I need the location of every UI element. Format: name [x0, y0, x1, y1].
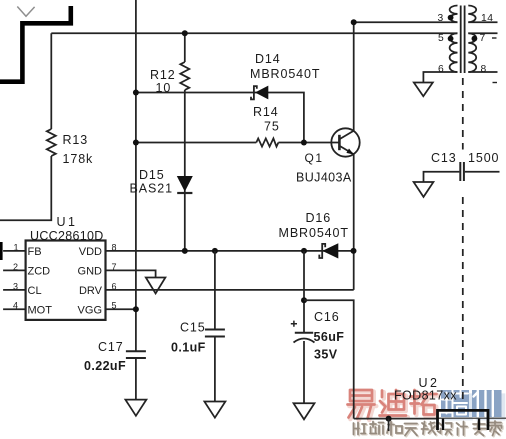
transformer winding pin5-6: [450, 33, 458, 72]
node C16 top: [301, 297, 307, 303]
svg-text:ZCD: ZCD: [28, 266, 51, 278]
diode D16 schottky: [322, 243, 338, 258]
svg-text:MOT: MOT: [28, 305, 53, 317]
svg-text:MBR0540T: MBR0540T: [279, 226, 349, 240]
wire R12 to D15 to VDD: [184, 90, 186, 251]
node base junction: [301, 140, 307, 146]
transistor Q1: [331, 128, 359, 156]
watermark big row halo: [349, 392, 505, 421]
wire C17 to ground: [135, 358, 137, 400]
svg-text:5: 5: [438, 33, 444, 44]
svg-text:R12: R12: [150, 68, 176, 82]
ground pin6: [414, 83, 433, 97]
svg-text:1: 1: [14, 242, 19, 252]
wire C15 top: [214, 251, 216, 330]
wire GND pin7: [106, 270, 156, 277]
resistor R12: [180, 62, 189, 90]
node D16-emitter: [351, 248, 357, 254]
svg-text:0.22uF: 0.22uF: [84, 359, 126, 373]
ground C17: [125, 400, 146, 416]
wire R13 bottom to left edge: [0, 156, 51, 220]
svg-text:56uF: 56uF: [314, 330, 345, 344]
svg-text:35V: 35V: [314, 348, 338, 362]
svg-text:FB: FB: [28, 246, 42, 258]
svg-text:FOD817xx: FOD817xx: [394, 389, 457, 403]
wire VGG bus vertical: [135, 0, 137, 351]
wire C16 node to U2 rail: [304, 300, 354, 418]
svg-text:VDD: VDD: [79, 246, 102, 258]
svg-text:D16: D16: [306, 211, 332, 225]
svg-text:BAS21: BAS21: [130, 182, 173, 196]
wire R12 top: [184, 33, 186, 62]
watermark small row halo: [355, 422, 503, 437]
svg-text:7: 7: [112, 262, 117, 272]
wire R13 branch top: [50, 33, 52, 129]
node collector-pin3: [351, 19, 357, 25]
wire Q1 collector: [353, 22, 355, 130]
svg-text:4: 4: [13, 301, 18, 311]
ground C16: [294, 403, 315, 419]
wire aux winding line (pin5): [51, 32, 457, 34]
svg-text:7: 7: [480, 33, 486, 44]
wire pin14: [468, 21, 497, 23]
svg-text:10: 10: [156, 81, 172, 95]
node rail stub: [386, 416, 392, 422]
wire C16 to ground: [303, 341, 305, 403]
svg-text:3: 3: [438, 13, 444, 24]
capacitor C17: [126, 350, 146, 352]
svg-text:GND: GND: [78, 266, 103, 278]
svg-text:8: 8: [481, 64, 487, 75]
svg-text:0.1uF: 0.1uF: [171, 341, 206, 355]
svg-text:2: 2: [13, 262, 18, 272]
diode D15: [177, 176, 193, 192]
wire C15 to ground: [214, 337, 216, 402]
svg-text:VGG: VGG: [78, 305, 102, 317]
minus mark top: [492, 37, 497, 39]
wire bottom rail right: [438, 417, 506, 419]
svg-text:R13: R13: [63, 133, 89, 147]
svg-text:8: 8: [112, 242, 117, 252]
grey chevron marker: [17, 7, 34, 17]
watermark small row: [354, 421, 502, 436]
ground U1: [146, 278, 166, 294]
svg-text:C15: C15: [180, 321, 206, 335]
watermark big row: [348, 390, 502, 419]
wire pin6 to ground: [423, 72, 457, 83]
polarity dot pin3: [448, 15, 454, 21]
wire pin8: [468, 71, 497, 73]
svg-text:75: 75: [264, 120, 280, 134]
wire VDD line pin8: [106, 250, 354, 252]
wire D14 line: [136, 93, 304, 143]
svg-text:6: 6: [438, 64, 444, 75]
node R14 tap: [133, 140, 139, 146]
wire R14 to base: [278, 142, 339, 144]
svg-text:6: 6: [112, 281, 117, 291]
svg-text:1500: 1500: [468, 151, 499, 165]
svg-text:BUJ403A: BUJ403A: [296, 171, 352, 185]
ground C15: [204, 402, 225, 418]
capacitor C13: [459, 162, 461, 181]
capacitor C15: [205, 329, 225, 331]
svg-text:D14: D14: [255, 52, 281, 66]
pin 3 CL stub: [3, 289, 26, 291]
isolation dashed line upper: [462, 78, 464, 150]
node R12 top: [182, 30, 188, 36]
svg-text:D15: D15: [139, 168, 165, 182]
pin 1 FB stub: [3, 250, 26, 252]
wire base line: [136, 142, 256, 144]
transformer core: [461, 6, 465, 74]
svg-text:178k: 178k: [63, 152, 94, 166]
wire VGG pin5: [106, 308, 136, 310]
svg-text:3: 3: [13, 281, 18, 291]
polarity dot pin7: [472, 36, 478, 42]
node D15-VDD: [182, 248, 188, 254]
U2 pin stubs: [443, 419, 479, 431]
svg-text:C16: C16: [314, 310, 340, 324]
svg-text:MBR0540T: MBR0540T: [250, 67, 320, 81]
thick clipped wire top-left: [0, 6, 71, 82]
svg-text:U1: U1: [57, 215, 78, 229]
svg-text:UCC28610D: UCC28610D: [30, 229, 104, 243]
wire C13 right: [465, 171, 500, 173]
resistor R14: [256, 138, 278, 146]
optocoupler U2 box: [438, 410, 489, 430]
wire C16 branch: [303, 251, 305, 333]
transformer winding pin14: [468, 6, 476, 23]
wire bottom rail: [354, 418, 438, 420]
isolation dashed line lower: [462, 197, 464, 400]
node D14 tap: [133, 90, 139, 96]
polarity dot pin5: [448, 36, 454, 42]
pin 2 ZCD stub: [3, 269, 26, 271]
svg-text:C17: C17: [98, 340, 124, 354]
transformer winding pin3: [450, 6, 458, 23]
transformer winding pin7-8: [468, 33, 476, 72]
wire rail stub down: [388, 419, 390, 431]
ground C13: [414, 182, 434, 197]
capacitor C16: [295, 332, 313, 334]
svg-text:Q1: Q1: [305, 151, 324, 165]
svg-text:5: 5: [112, 301, 117, 311]
capacitor C16 plus: [291, 321, 297, 327]
wire pin7: [468, 32, 497, 34]
svg-text:R14: R14: [253, 105, 279, 119]
wire C13 left to ground: [424, 172, 460, 182]
diode D14 schottky: [255, 86, 268, 100]
node VGG-C17: [133, 306, 139, 312]
wire DRV line pin6: [106, 289, 354, 291]
minus mark bottom: [493, 82, 498, 84]
pin 4 MOT stub: [3, 308, 26, 310]
wire Q1 emitter down to DRV: [353, 154, 355, 290]
left edge clipped bar: [0, 242, 3, 260]
svg-text:C13: C13: [431, 151, 457, 165]
node C15-VDD: [212, 248, 218, 254]
U1 box: [26, 241, 106, 320]
svg-text:CL: CL: [28, 285, 42, 297]
resistor R13: [47, 129, 56, 156]
node C16-VDD: [301, 248, 307, 254]
wire pin3 line: [354, 21, 458, 23]
svg-text:14: 14: [481, 13, 493, 24]
svg-text:DRV: DRV: [79, 285, 103, 297]
